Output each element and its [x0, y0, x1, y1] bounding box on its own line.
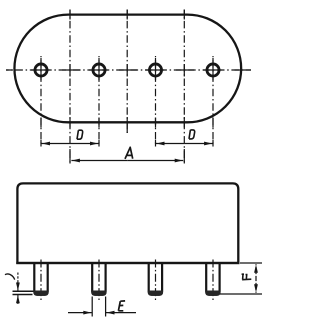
label F (drawn glyph, rotated 90)	[242, 274, 252, 280]
dimension F line with arrows	[255, 264, 257, 278]
pin 4 centerline	[212, 258, 214, 301]
pin 3 tip chord line	[149, 290, 162, 292]
pin 3 outline	[149, 263, 162, 295]
pin 3 centerline	[155, 258, 157, 301]
pin 2 tip chord line	[92, 290, 105, 292]
pin 2 centerline	[98, 258, 100, 301]
vertical centerline right mid (x=184)	[183, 10, 185, 164]
horizontal centerline solid bars through holes and midlines	[6, 69, 251, 71]
dimension E extension line right	[105, 297, 107, 317]
dimension E right arrow (pointing left)	[106, 312, 136, 314]
dimension E left arrow (pointing right)	[68, 312, 92, 314]
hole 4 centerline vertical	[212, 56, 214, 147]
label E (drawn glyph)	[118, 301, 125, 311]
dimension E extension line left	[91, 297, 93, 317]
hole 1	[35, 64, 47, 76]
pin 1 tip chord line (extends left for J)	[13, 290, 48, 292]
pin 1 outline	[34, 263, 47, 295]
dimension J upper arrow (pointing down)	[17, 273, 19, 284]
hole 2 centerline vertical	[98, 56, 100, 147]
hole 1 centerline vertical	[40, 56, 42, 147]
horizontal centerline	[6, 69, 251, 71]
pin 1 dark tip fill	[33, 291, 48, 296]
pin 3 dark tip fill	[148, 291, 163, 296]
hole 4	[207, 64, 219, 76]
side view body bottom edge	[16, 262, 239, 264]
dimension A: line with outward arrows	[71, 160, 127, 162]
side view body	[17, 183, 238, 263]
label D right (drawn glyph)	[189, 130, 195, 139]
pin 4 outline	[206, 263, 219, 295]
pin 1 centerline	[40, 258, 42, 301]
vertical centerline left mid (x=70)	[69, 10, 71, 164]
dimension D left: line with outward arrows	[42, 143, 71, 145]
dimension F extension line bottom	[220, 293, 262, 295]
label J (curved hook stroke)	[5, 274, 15, 280]
hole 2	[93, 64, 105, 76]
dimension J lower arrow (pointing up)	[17, 295, 19, 304]
dimension F extension line top	[240, 262, 262, 264]
dimension D right: line with outward arrows	[156, 143, 184, 145]
hole 3 centerline vertical	[155, 56, 157, 147]
pin 4 tip chord line	[206, 290, 219, 292]
label D left (drawn glyph)	[77, 130, 83, 139]
vertical centerline middle (x=127)	[126, 10, 128, 134]
pin 1 bottom tangent tick (J lower)	[13, 294, 33, 296]
pin 4 dark tip fill	[205, 291, 220, 296]
label A (drawn glyph)	[125, 147, 133, 159]
pin 2 dark tip fill	[91, 291, 106, 296]
pin 2 outline	[92, 263, 105, 295]
hole 3	[149, 64, 161, 76]
top view body outline (stadium / obround)	[14, 15, 241, 123]
